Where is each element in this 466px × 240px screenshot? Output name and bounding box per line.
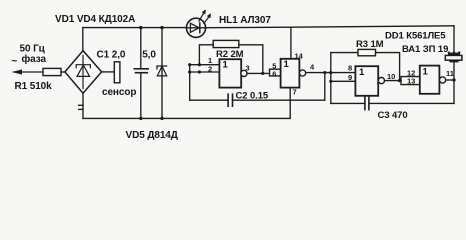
wire C1 branch bottom xyxy=(140,73,142,118)
gate DD1.3 xyxy=(355,66,378,96)
piezo buzzer BA1 ЗП-19 xyxy=(448,53,460,56)
resistor R1 xyxy=(43,68,61,75)
wire gate1 input lines xyxy=(190,64,220,66)
gate4 output bubble xyxy=(440,77,446,83)
gate1 output bubble xyxy=(241,70,247,76)
node dot pin11 output on buzzer line xyxy=(452,78,455,81)
R2 feedback loop wires xyxy=(199,45,213,65)
LED arrows xyxy=(199,14,203,21)
node dot R3 right leg on pin10 wire xyxy=(398,79,401,82)
svg-text:VD1 VD4 КД102А: VD1 VD4 КД102А xyxy=(55,14,135,25)
wire input with left arrow xyxy=(14,71,44,73)
wire bottom rail xyxy=(83,88,290,119)
R3 loop wires xyxy=(331,52,358,54)
svg-text:11: 11 xyxy=(446,69,454,78)
node dot C1 top xyxy=(139,26,142,29)
wire through LED xyxy=(186,27,205,29)
wire gate3 input 9 xyxy=(331,80,356,82)
wire C2 right segment xyxy=(233,99,325,101)
arrowhead input xyxy=(12,69,22,74)
diode inside bridge xyxy=(76,56,90,89)
wire buzzer down through pin11 node to C3 xyxy=(453,62,455,103)
svg-text:C2 0.15: C2 0.15 xyxy=(236,91,269,102)
wire input node down to C2 xyxy=(189,65,191,101)
svg-text:R1 510k: R1 510k xyxy=(15,81,53,92)
wire C3 right segment xyxy=(369,102,454,104)
svg-text:1: 1 xyxy=(284,59,290,70)
wire top rail left segment xyxy=(83,27,187,29)
capacitor C3 plates xyxy=(364,97,366,109)
node dots R2 left leg on input lines xyxy=(198,63,201,66)
capacitor C1 plates xyxy=(134,68,148,70)
svg-text:8: 8 xyxy=(348,63,352,72)
svg-text:C1 2,0: C1 2,0 xyxy=(97,50,126,61)
svg-text:1: 1 xyxy=(423,67,429,78)
svg-text:7: 7 xyxy=(293,88,297,97)
gate DD1.2 xyxy=(281,59,300,88)
wire top rail right segment xyxy=(206,26,454,28)
gate2 output bubble xyxy=(300,70,306,76)
svg-text:50 Гц: 50 Гц xyxy=(20,43,46,54)
R3 loop vertical left / down to C3 xyxy=(330,53,332,104)
wire C1 branch top xyxy=(140,28,142,68)
svg-text:сенсор: сенсор xyxy=(102,87,136,98)
node dot R3 left leg on pin4 wire xyxy=(329,71,332,74)
wire gate3 output to gate4 fork xyxy=(385,80,402,82)
gate DD1.4 xyxy=(420,66,440,94)
svg-text:~: ~ xyxy=(12,56,18,67)
svg-text:10: 10 xyxy=(387,72,395,81)
svg-text:1: 1 xyxy=(359,67,365,78)
svg-text:ВА1 ЗП 19: ВА1 ЗП 19 xyxy=(402,44,448,55)
pin 14 wire xyxy=(290,27,292,59)
svg-text:2: 2 xyxy=(208,64,212,73)
svg-text:3: 3 xyxy=(246,64,250,73)
node dot VD5 bottom xyxy=(160,117,163,120)
minus ticks on bridge bottom wire xyxy=(79,104,83,106)
capacitor C2 plates xyxy=(227,94,229,106)
svg-text:9: 9 xyxy=(348,73,352,82)
svg-text:R3 1M: R3 1M xyxy=(356,39,384,50)
gate DD1.1 (NOR as inverter) xyxy=(219,59,241,87)
svg-text:HL1 АЛ307: HL1 АЛ307 xyxy=(219,15,271,26)
wire bridge bottom to bottom rail xyxy=(82,93,84,118)
resistor R3 xyxy=(358,49,376,55)
node dots gate1 input ties xyxy=(188,63,191,66)
fork into gate2 inputs xyxy=(270,69,281,73)
svg-text:1: 1 xyxy=(223,60,229,71)
node dot C2 on pin4 wire xyxy=(323,71,326,74)
LED HL1 xyxy=(186,18,205,37)
wire gate2 output to gate3 xyxy=(306,72,356,74)
bridge rectifier VD1-VD4 xyxy=(65,51,102,94)
svg-text:6: 6 xyxy=(272,69,276,78)
sensor plate xyxy=(114,62,120,83)
svg-text:13: 13 xyxy=(407,77,415,86)
wire bridge right to sensor plate xyxy=(102,71,115,73)
node dot R2 right leg on gate1 output xyxy=(261,72,264,75)
wire R1 to bridge xyxy=(61,71,65,73)
wire gate4 output to right vertical xyxy=(446,79,454,81)
zener diode VD5 xyxy=(157,66,167,69)
wire C2 right up to gate2 output node xyxy=(324,73,326,101)
wire gate1 output to gate2 xyxy=(247,72,268,74)
svg-text:14: 14 xyxy=(295,51,304,60)
svg-text:VD5 Д814Д: VD5 Д814Д xyxy=(126,130,178,141)
node dot on pin9 line xyxy=(329,80,332,83)
node dot VD5 top xyxy=(160,26,163,29)
svg-text:5,0: 5,0 xyxy=(142,50,156,61)
resistor R2 xyxy=(213,40,239,47)
gate3 output bubble xyxy=(378,78,384,84)
svg-text:C3 470: C3 470 xyxy=(378,110,408,121)
fork into gate4 inputs xyxy=(401,77,420,81)
svg-text:4: 4 xyxy=(310,63,315,72)
wire C2 left segment xyxy=(190,99,228,101)
wire C3 left segment xyxy=(331,102,365,104)
wire drop from rail to bridge top xyxy=(82,28,84,51)
svg-text:фаза: фаза xyxy=(22,53,47,65)
svg-text:DD1 К561ЛЕ5: DD1 К561ЛЕ5 xyxy=(385,31,446,42)
wire VD5 branch xyxy=(161,28,163,119)
node dot C1 bottom xyxy=(139,117,142,120)
wire right vertical rail to buzzer xyxy=(453,26,455,53)
